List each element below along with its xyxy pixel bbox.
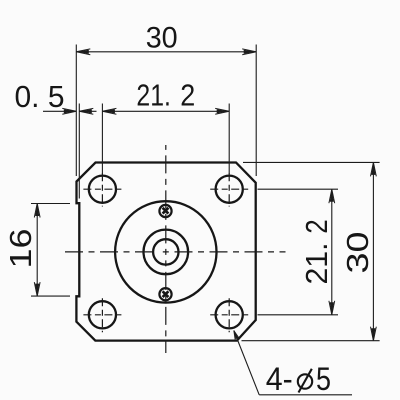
screw X top <box>163 208 169 214</box>
dim line 21.2 right <box>331 189 333 315</box>
svg-text:30: 30 <box>340 232 375 274</box>
vertical main centerline <box>165 145 167 353</box>
svg-text:2: 2 <box>180 79 195 113</box>
arrow 30-top left <box>76 49 90 55</box>
hole top-right <box>216 176 243 203</box>
extension line 16 bottom <box>31 295 70 297</box>
arrow 30-top right <box>242 49 256 55</box>
screw circle top <box>159 205 171 217</box>
middle pilot circle <box>144 230 189 275</box>
leader line 4-phi5 <box>234 331 259 395</box>
hole bottom-left <box>89 301 116 328</box>
leader shoulder line <box>259 394 352 396</box>
extension line 30-right top <box>243 161 380 163</box>
horizontal main centerline <box>65 251 286 253</box>
extension line hole column left <box>101 104 103 175</box>
extension line left inner 0.5 <box>78 104 80 199</box>
hole BR centerline cross <box>210 314 248 316</box>
svg-text:16: 16 <box>3 229 38 269</box>
dim 0.5 right arrow line <box>79 110 96 112</box>
large boss circle <box>115 201 216 302</box>
svg-text:30: 30 <box>146 21 178 54</box>
arrow 30-right top <box>371 162 377 176</box>
screw circle bottom <box>159 288 171 300</box>
screw X bottom <box>163 291 169 297</box>
arrow 0.5 left (points right) <box>62 108 76 114</box>
dim line 16 <box>36 204 38 297</box>
arrow 21.2-top right <box>215 108 229 114</box>
arrow 30-right bottom <box>371 327 377 341</box>
dim 0.5 left arrow line <box>43 110 76 112</box>
phi symbol slash <box>299 369 312 393</box>
extension line hole column right <box>228 104 230 175</box>
extension line 21.2-right bottom row <box>258 314 339 316</box>
extension line 16 top <box>31 203 70 205</box>
hole TR centerline cross <box>210 188 248 190</box>
shaft hole circle <box>153 239 178 264</box>
arrow 16 bottom <box>34 282 40 296</box>
dim line 30 right <box>372 162 374 340</box>
arrow 0.5 right (points left) <box>79 108 93 114</box>
extension line left outer 0.5/30 <box>75 45 77 177</box>
svg-text:5: 5 <box>316 361 331 397</box>
dim line 30 top <box>76 51 256 53</box>
extension line 21.2-right top row <box>258 188 339 190</box>
svg-text:0. 5: 0. 5 <box>15 79 65 114</box>
hole BL centerline cross <box>83 314 121 316</box>
svg-text:21.: 21. <box>136 79 171 113</box>
plate outline <box>76 163 255 341</box>
leader arrowhead <box>232 330 240 340</box>
hole TL centerline cross <box>83 188 121 190</box>
arrow 16 top <box>34 204 40 218</box>
phi symbol circle <box>298 374 312 388</box>
arrow 21.2-right bottom <box>329 301 335 315</box>
hole bottom-right <box>216 301 243 328</box>
hole top-left <box>89 176 116 203</box>
arrow 21.2-top left <box>102 108 116 114</box>
extension line right 30 top <box>255 45 257 177</box>
extension line 30-right bottom <box>242 340 380 342</box>
dim line 21.2 top <box>102 110 229 112</box>
svg-text:4-: 4- <box>266 361 293 397</box>
svg-text:21.: 21. <box>299 243 334 285</box>
arrow 21.2-right top <box>329 189 335 203</box>
svg-text:2: 2 <box>299 219 334 234</box>
